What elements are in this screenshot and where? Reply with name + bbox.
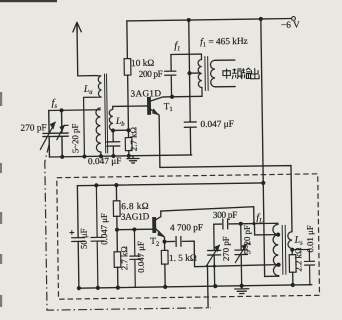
svg-text:3AG1D: 3AG1D: [121, 212, 150, 222]
svg-text:200 pF: 200 pF: [139, 70, 163, 80]
svg-text:10 kΩ: 10 kΩ: [131, 59, 154, 69]
svg-text:300 pF: 300 pF: [213, 211, 238, 221]
svg-text:270 pF: 270 pF: [20, 123, 46, 133]
svg-text:0.047 μF: 0.047 μF: [200, 120, 234, 130]
svg-text:6.8 kΩ: 6.8 kΩ: [121, 202, 149, 212]
svg-text:2.7 kΩ: 2.7 kΩ: [119, 246, 129, 271]
svg-text:1. 5 kΩ: 1. 5 kΩ: [169, 254, 197, 264]
svg-text:0.047 μF: 0.047 μF: [99, 213, 109, 245]
svg-text:5~20 pF: 5~20 pF: [70, 124, 80, 154]
svg-text:0.047 μF: 0.047 μF: [88, 157, 122, 167]
svg-text:0.01 μF: 0.01 μF: [305, 225, 315, 252]
svg-text:2.2 kΩ: 2.2 kΩ: [293, 247, 303, 272]
svg-text:5~20 pF: 5~20 pF: [242, 225, 252, 255]
svg-text:−6 V: −6 V: [281, 21, 300, 31]
svg-text:3AG1D: 3AG1D: [130, 89, 161, 99]
svg-text:4 700 pF: 4 700 pF: [170, 223, 203, 233]
svg-text:f1 = 465 kHz: f1 = 465 kHz: [200, 36, 248, 49]
svg-text:50 μF: 50 μF: [79, 228, 89, 249]
svg-text:0.047 μF: 0.047 μF: [135, 241, 145, 273]
svg-text:2.7 kΩ: 2.7 kΩ: [128, 126, 138, 151]
svg-text:270 pF: 270 pF: [221, 236, 231, 261]
